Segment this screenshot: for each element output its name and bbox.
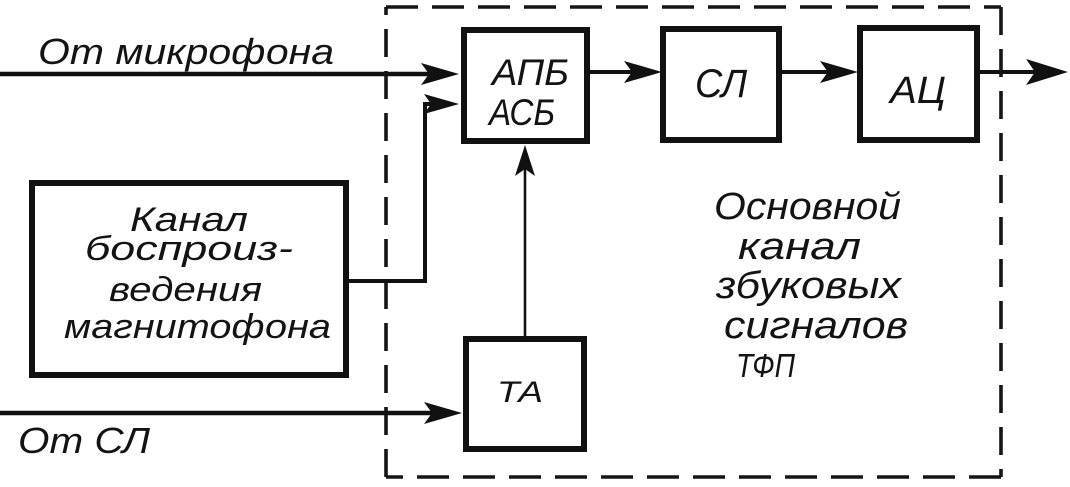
block U2 СЛ	[663, 29, 779, 140]
wire СЛ to АЦ	[782, 70, 832, 74]
svg-text:ТФП: ТФП	[736, 347, 795, 384]
svg-text:сигналов: сигналов	[724, 305, 908, 347]
wire АПБ to СЛ	[590, 70, 636, 74]
svg-text:АПБ: АПБ	[490, 52, 569, 93]
svg-text:канал: канал	[738, 226, 861, 268]
svg-text:От СЛ: От СЛ	[18, 420, 150, 461]
wire: playback channel to АПБ	[346, 104, 432, 281]
svg-text:СЛ: СЛ	[695, 62, 748, 106]
svg-text:збуковых: збуковых	[715, 265, 903, 307]
output arrowhead	[1026, 59, 1068, 85]
arrowhead into АПБ (top)	[421, 63, 459, 85]
block: tape recorder playback channel	[32, 183, 346, 375]
wire: ТА to АПБ (vertical)	[524, 150, 527, 339]
svg-text:боспроиз-: боспроиз-	[85, 230, 293, 268]
svg-text:ТА: ТА	[497, 376, 543, 409]
svg-text:От микрофона: От микрофона	[38, 31, 334, 72]
svg-text:Основной: Основной	[714, 186, 901, 228]
arrowhead into АЦ	[820, 61, 858, 83]
arrowhead into СЛ	[624, 61, 662, 83]
wire: СЛ line input	[0, 411, 436, 415]
svg-text:АСБ: АСБ	[487, 92, 555, 133]
svg-text:АЦ: АЦ	[888, 70, 946, 112]
svg-text:магнитофона: магнитофона	[64, 308, 331, 346]
block U1 АПБ/АСБ	[464, 30, 587, 141]
svg-text:ведения: ведения	[109, 271, 262, 309]
arrowhead into АПБ bottom	[515, 145, 535, 176]
block U3 АЦ	[860, 28, 977, 140]
block U4 ТА	[466, 339, 584, 449]
wire: output of АЦ	[980, 70, 1040, 74]
dashed enclosure (main sound channel boundary)	[386, 7, 1001, 477]
wire: microphone input	[0, 72, 432, 76]
arrowhead into АПБ (lower)	[424, 94, 459, 114]
arrowhead into ТА	[424, 402, 462, 424]
